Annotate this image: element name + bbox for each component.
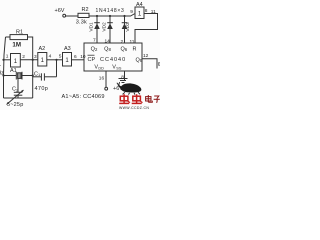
svg-text:1M: 1M (12, 41, 21, 48)
svg-text:1: 1 (6, 54, 9, 60)
svg-text:470p: 470p (35, 86, 49, 92)
svg-text:A4: A4 (136, 2, 143, 8)
svg-text:VD2: VD2 (102, 22, 108, 32)
svg-text:C2: C2 (12, 87, 19, 93)
svg-text:R1: R1 (16, 30, 23, 36)
svg-text:16: 16 (99, 75, 105, 81)
svg-text:12: 12 (143, 53, 149, 59)
svg-text:A3: A3 (64, 46, 71, 52)
svg-text:14: 14 (105, 39, 111, 45)
svg-text:7: 7 (93, 38, 96, 44)
svg-text:3.3k: 3.3k (76, 19, 87, 25)
svg-text:5~25p: 5~25p (7, 102, 23, 108)
svg-text:VD1: VD1 (89, 22, 95, 32)
svg-text:4: 4 (49, 54, 52, 60)
svg-text:CP: CP (88, 57, 96, 63)
svg-text:SS: SS (116, 67, 122, 71)
svg-text:C1: C1 (34, 71, 41, 77)
svg-text:5: 5 (59, 53, 62, 59)
svg-text:A2: A2 (39, 46, 46, 52)
svg-text:2: 2 (121, 39, 124, 45)
svg-text:11: 11 (151, 9, 156, 15)
svg-text:Q9: Q9 (136, 57, 143, 63)
svg-text:Q6: Q6 (120, 47, 127, 53)
svg-text:6: 6 (158, 62, 160, 68)
svg-text:+6V: +6V (55, 8, 65, 14)
svg-text:3: 3 (34, 54, 37, 60)
svg-text:VD3: VD3 (125, 22, 131, 32)
svg-text:1N4148×3: 1N4148×3 (96, 8, 125, 14)
svg-text:R: R (133, 47, 137, 53)
svg-text:Hz: Hz (0, 71, 4, 77)
svg-text:DD: DD (98, 67, 104, 71)
svg-text:R2: R2 (82, 7, 89, 13)
svg-text:2: 2 (22, 54, 25, 60)
svg-text:A1~A5: CC4069: A1~A5: CC4069 (62, 94, 105, 100)
svg-text:8: 8 (145, 8, 148, 14)
svg-text:A1: A1 (10, 68, 17, 74)
svg-text:8: 8 (121, 75, 124, 81)
svg-text:Q8: Q8 (104, 47, 111, 53)
svg-text:WWW.CCDZ.CN: WWW.CCDZ.CN (119, 106, 149, 110)
svg-text:9: 9 (130, 9, 133, 15)
svg-text:10: 10 (80, 54, 86, 60)
svg-text:11: 11 (130, 39, 135, 45)
svg-text:6: 6 (74, 54, 77, 60)
svg-text:Q2: Q2 (91, 47, 98, 53)
svg-text:CC4040: CC4040 (100, 57, 126, 63)
